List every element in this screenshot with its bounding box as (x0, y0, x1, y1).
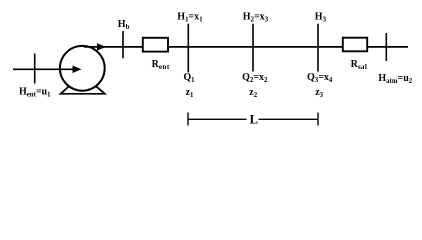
svg-text:z3: z3 (315, 87, 323, 99)
label z3 (315, 87, 323, 99)
label H_ent = u1 (19, 87, 51, 99)
label R_ent (152, 59, 170, 71)
inlet flow arrowhead (73, 66, 82, 73)
resistor R_sal (343, 38, 367, 52)
node H_atm tick (385, 33, 387, 61)
label z1 (186, 87, 194, 99)
label H_b (118, 19, 130, 31)
node 1 tick (H1) (187, 24, 189, 73)
pump P1 (circle) (60, 46, 105, 91)
wire: main pipe (84, 46, 408, 48)
label L (250, 113, 258, 127)
svg-text:z2: z2 (249, 87, 257, 99)
node 3 tick (H3) (317, 24, 319, 72)
label Q2 = x2 (242, 72, 268, 84)
label z2 (249, 87, 257, 99)
svg-text:H3: H3 (315, 12, 327, 24)
label R_sal (351, 59, 368, 71)
svg-text:Hatm=u2: Hatm=u2 (378, 73, 412, 85)
node 2 tick (H2) (252, 24, 254, 72)
wire: inlet line (13, 68, 75, 70)
svg-text:Rent: Rent (152, 59, 170, 71)
svg-text:Hb: Hb (118, 19, 130, 31)
dimension line right tick (317, 113, 319, 126)
svg-text:L: L (250, 113, 258, 127)
svg-text:z1: z1 (186, 87, 194, 99)
label H_atm = u2 (378, 73, 412, 85)
pipe flow arrowhead (97, 43, 106, 50)
resistor R_ent (143, 38, 168, 52)
svg-text:Q3=x4: Q3=x4 (307, 72, 333, 84)
label H3 (315, 12, 327, 24)
svg-text:Rsal: Rsal (351, 59, 368, 71)
svg-text:Q1: Q1 (183, 72, 195, 84)
label Q3 = x4 (307, 72, 333, 84)
svg-text:H2=x3: H2=x3 (243, 12, 269, 24)
svg-text:H1=x1: H1=x1 (177, 12, 203, 24)
label Q1 (183, 72, 195, 84)
svg-text:Q2=x2: Q2=x2 (242, 72, 268, 84)
dimension line segments (188, 118, 318, 120)
node H_b tick (122, 31, 124, 58)
pump base (61, 85, 105, 94)
node H_ent tick (34, 54, 36, 84)
svg-text:Hent=u1: Hent=u1 (19, 87, 51, 99)
label H1 = x1 (177, 12, 203, 24)
label H2 = x3 (243, 12, 269, 24)
dimension line left tick (187, 113, 189, 126)
